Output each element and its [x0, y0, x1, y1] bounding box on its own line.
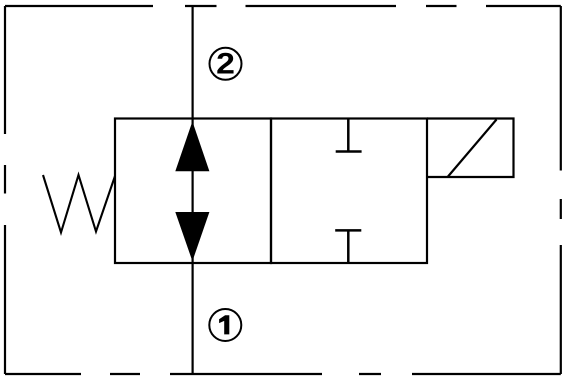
svg-text:2: 2	[216, 48, 235, 81]
valve envelope right square (blocked position)	[271, 119, 427, 264]
manifold boundary left edge (dashed)	[4, 6, 6, 374]
internal flow path line	[192, 119, 194, 264]
manifold boundary bottom edge (dashed)	[5, 373, 561, 375]
up flow arrow (poppet open)	[175, 121, 209, 171]
return spring	[43, 175, 115, 233]
port 2 line (wire from top boundary to valve)	[192, 6, 194, 119]
blocked port symbol bottom (position 2)	[335, 230, 361, 263]
port label 1 circle	[209, 309, 241, 341]
valve envelope left square (flow position)	[115, 119, 271, 264]
solenoid coil U1	[427, 119, 514, 178]
port label 2 circle	[210, 48, 242, 80]
port label 1 digit	[219, 315, 229, 334]
port 1 line (wire from valve to bottom boundary)	[192, 263, 194, 374]
manifold boundary top edge (dashed)	[5, 5, 561, 7]
down flow arrow (poppet open)	[175, 212, 209, 261]
blocked port symbol top (position 2)	[336, 119, 362, 152]
manifold boundary right edge (dashed)	[560, 6, 562, 374]
